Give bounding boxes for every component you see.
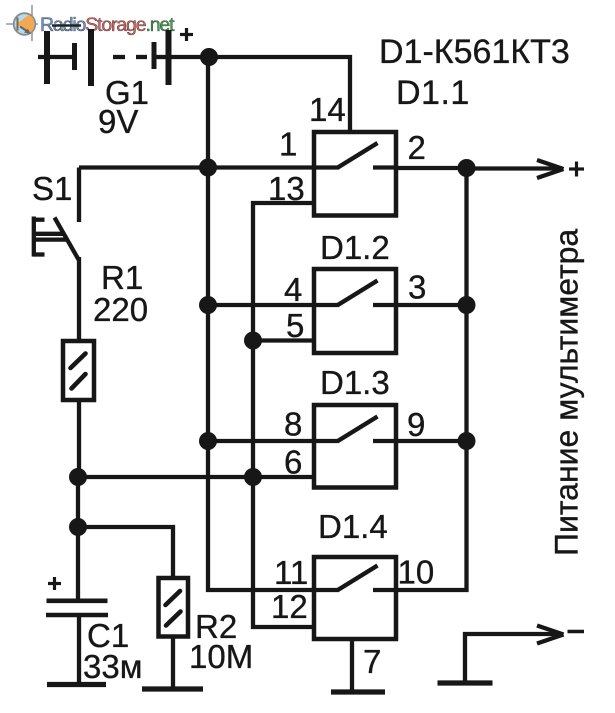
svg-text:D1.3: D1.3	[320, 364, 390, 401]
wire pin 5	[253, 338, 314, 342]
wire control node to C1 node	[76, 477, 80, 527]
svg-text:3: 3	[408, 269, 426, 306]
resistor R2	[159, 578, 189, 637]
analog switch D1.1	[314, 132, 396, 216]
wire R1 to control node	[77, 400, 81, 477]
wire pin 8	[208, 439, 314, 443]
ground C1	[47, 682, 106, 687]
svg-text:7: 7	[363, 643, 381, 680]
svg-text:5: 5	[286, 307, 304, 344]
wire S1 to R1	[77, 257, 81, 341]
wire control net pins 13,5,6,12	[253, 203, 314, 627]
junction control pin 6	[244, 468, 262, 486]
resistor R1	[63, 341, 94, 400]
negative terminal wire	[465, 626, 564, 682]
svg-text:10: 10	[398, 554, 435, 591]
svg-text:12: 12	[271, 588, 308, 625]
ground pin 7	[331, 689, 385, 694]
battery G1	[38, 29, 209, 86]
wire pin 9	[396, 439, 467, 443]
label - output	[568, 630, 585, 633]
junction output pin 9	[458, 432, 476, 450]
svg-text:2: 2	[408, 129, 426, 166]
svg-text:1: 1	[279, 126, 297, 163]
svg-text:9V: 9V	[98, 103, 138, 140]
ground bar negative terminal	[438, 680, 493, 685]
junction bus pin 8	[199, 432, 217, 450]
C1 + polarity	[48, 577, 61, 590]
junction control pin 5	[244, 332, 262, 350]
svg-text:D1-К561КТ3: D1-К561КТ3	[379, 33, 570, 71]
wire pin 6 to control node	[78, 475, 314, 479]
svg-text:D1.4: D1.4	[318, 508, 388, 545]
svg-text:11: 11	[274, 554, 308, 591]
analog switch D1.2	[314, 269, 396, 353]
wire C1 node to R2	[78, 527, 173, 578]
junction bus pin 4	[199, 296, 217, 314]
wire pin 4	[208, 303, 314, 307]
+ output arrow	[467, 160, 564, 178]
svg-text:6: 6	[284, 444, 302, 481]
wire +9V bus to pin 11	[208, 57, 314, 590]
svg-text:4: 4	[284, 271, 302, 308]
wire C1 node to C1 top	[76, 527, 80, 599]
battery + polarity	[180, 28, 193, 41]
wire S1 to pin 1	[79, 165, 314, 169]
svg-text:14: 14	[309, 91, 346, 128]
svg-text:33м: 33м	[83, 648, 142, 685]
wire battery+ to pin 14	[209, 57, 350, 134]
junction output pin 3	[458, 296, 476, 314]
svg-text:10M: 10M	[189, 638, 253, 675]
wire R2 to ground	[171, 637, 175, 689]
junction + output	[458, 159, 476, 177]
label + output	[569, 162, 584, 177]
svg-text:9: 9	[407, 406, 425, 443]
svg-text:S1: S1	[32, 170, 72, 207]
junction C1 node	[69, 518, 87, 536]
junction R1 control node	[69, 468, 87, 486]
ground R2	[142, 686, 203, 691]
svg-text:8: 8	[284, 406, 302, 443]
svg-text:13: 13	[268, 170, 305, 207]
svg-text:D1.1: D1.1	[396, 74, 470, 112]
svg-text:220: 220	[93, 291, 148, 328]
analog switch D1.4	[314, 557, 396, 639]
wire pin 3	[396, 303, 467, 307]
pushbutton S1	[33, 168, 80, 260]
analog switch D1.3	[314, 405, 396, 488]
logo crosshair	[6, 5, 38, 41]
svg-text:Питание мультиметра: Питание мультиметра	[549, 229, 585, 556]
junction battery +	[200, 48, 218, 66]
logo strike line	[52, 24, 81, 27]
svg-text:D1.2: D1.2	[320, 229, 390, 266]
wire pin 2 to + output	[396, 166, 467, 170]
junction bus pin 1	[199, 159, 217, 177]
wire output bus to pin 10	[396, 168, 467, 590]
wire pin 7 to ground	[350, 639, 354, 692]
capacitor C1	[46, 601, 108, 684]
logo transistor icon	[14, 11, 36, 37]
